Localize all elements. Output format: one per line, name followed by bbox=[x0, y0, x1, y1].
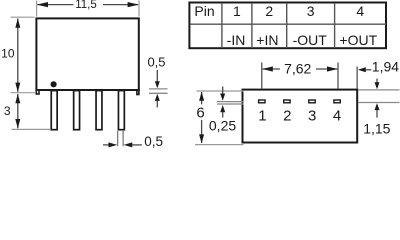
front view: right standoff foot bbox=[137, 90, 139, 95]
dimension 6: bottom extension line bbox=[195, 144, 244, 146]
dimension 1,15: upper arrow shaft bbox=[376, 79, 378, 84]
dimension 1,94: arrow shaft bbox=[365, 69, 371, 71]
dimension 10: dimension line bbox=[17, 19, 19, 92]
svg-text:6: 6 bbox=[196, 105, 204, 122]
front view: pin 2 lead bbox=[74, 91, 80, 130]
dimension 6: dimension line upper segment bbox=[201, 92, 203, 104]
dimension 11,5: right arrowhead bbox=[128, 2, 139, 7]
dimension 3: bottom extension line bbox=[12, 128, 51, 130]
svg-text:4: 4 bbox=[333, 108, 341, 125]
pin table: column line 2 bbox=[251, 3, 253, 48]
dimension 1,15: upper arrowhead pointing down bbox=[375, 82, 380, 89]
dimension 0,5 pin width: left arrowhead pointing right bbox=[109, 142, 118, 147]
dimension 0,5 standoff: lower arrow shaft bbox=[156, 100, 158, 107]
dimension 0,5 standoff: upper reference line bbox=[149, 88, 168, 90]
dimension 3: dimension line bbox=[17, 94, 19, 128]
svg-text:0,5: 0,5 bbox=[147, 54, 165, 69]
dimension 11,5: dimension line left segment bbox=[38, 4, 74, 6]
front view: pin 4 lead bbox=[118, 91, 124, 130]
dimension 10: bottom extension line bbox=[11, 92, 36, 94]
front view: pin 1 lead bbox=[51, 91, 57, 130]
dimension 10: bottom arrowhead bbox=[15, 83, 20, 93]
pin table: column line 1 bbox=[221, 3, 223, 48]
dimension 7,62: right extension line bbox=[337, 63, 339, 89]
dimension 7,62: dimension line right segment bbox=[316, 68, 337, 70]
svg-text:0,25: 0,25 bbox=[209, 118, 236, 134]
dimension 11,5: left extension tick bbox=[36, 1, 38, 17]
dimension 6: dimension line lower segment bbox=[201, 120, 203, 143]
front view: pin 3 lead bbox=[96, 91, 102, 130]
dimension 3: bottom arrowhead bbox=[15, 119, 20, 129]
dimension 0,5 pin width: right arrowhead pointing left bbox=[124, 142, 133, 147]
dimension 0,25: lower pin thickness line bbox=[217, 103, 244, 105]
dimension 11,5: dimension line right segment bbox=[103, 4, 138, 6]
svg-text:3: 3 bbox=[307, 3, 315, 19]
pin table: row separator line bbox=[190, 23, 386, 25]
svg-text:+IN: +IN bbox=[256, 32, 278, 48]
bottom view: pin pad 3 bbox=[309, 100, 315, 103]
dimension 0,5 standoff: lower reference line bbox=[149, 92, 168, 94]
dimension 11,5: left arrowhead bbox=[37, 2, 48, 7]
svg-text:1: 1 bbox=[258, 108, 266, 125]
dimension 6: top arrowhead pointing up bbox=[199, 92, 204, 101]
svg-text:-OUT: -OUT bbox=[293, 32, 328, 48]
bottom view: package body outline bbox=[243, 90, 358, 143]
svg-text:-IN: -IN bbox=[227, 32, 246, 48]
svg-text:+OUT: +OUT bbox=[339, 32, 377, 48]
dimension 3: top arrowhead bbox=[15, 94, 20, 104]
pin table: outer border bbox=[189, 3, 386, 49]
front view: left standoff foot bbox=[36, 90, 39, 94]
svg-text:2: 2 bbox=[265, 3, 273, 19]
dimension 0,25: upper pin thickness line bbox=[217, 101, 244, 103]
dimension 6: bottom arrowhead pointing down bbox=[199, 134, 204, 143]
dimension 7,62: right arrowhead bbox=[327, 66, 338, 71]
dimension 0,25: lower arrowhead pointing up bbox=[220, 105, 225, 112]
dimension 1,15: lower extension line bbox=[359, 102, 400, 104]
dimension 10: top extension line bbox=[11, 16, 35, 18]
dimension 0,5 pin width: left extension line bbox=[117, 131, 119, 146]
dimension 7,62: left arrowhead bbox=[262, 66, 273, 71]
dimension 7,62: left extension line bbox=[261, 63, 263, 89]
dimension 0,5 standoff: upper arrow shaft bbox=[156, 70, 158, 82]
bottom view: pin pad 1 bbox=[259, 100, 265, 103]
dimension 1,94: extension line above box corner bbox=[356, 67, 358, 89]
svg-text:7,62: 7,62 bbox=[284, 60, 311, 76]
svg-text:1,94: 1,94 bbox=[372, 59, 399, 75]
front view: package body outline bbox=[36, 18, 138, 90]
bottom view: pin pad 2 bbox=[284, 100, 290, 103]
svg-text:Pin: Pin bbox=[194, 3, 214, 19]
svg-text:1: 1 bbox=[233, 3, 241, 19]
dimension 1,15: upper extension line bbox=[359, 89, 400, 91]
dimension 0,5 standoff: lower arrowhead pointing up bbox=[155, 94, 160, 101]
dimension 1,94: arrowhead pointing left bbox=[358, 67, 366, 72]
dimension 0,5 pin width: left arrow shaft bbox=[103, 144, 109, 146]
svg-text:11,5: 11,5 bbox=[75, 0, 97, 11]
pin table: column line 3 bbox=[286, 3, 288, 48]
dimension 1,15: lower arrowhead pointing up bbox=[375, 103, 380, 110]
svg-text:10: 10 bbox=[1, 46, 15, 60]
front view: pin 1 marker dot bbox=[51, 81, 57, 87]
dimension 0,25: lower arrow shaft bbox=[222, 112, 224, 118]
dimension 0,5 pin width: right extension line bbox=[122, 131, 124, 146]
dimension 0,5 pin width: right arrow shaft bbox=[132, 144, 142, 146]
dimension 6: top extension line bbox=[197, 90, 244, 92]
svg-text:4: 4 bbox=[356, 3, 364, 19]
pin table: column line 4 bbox=[334, 3, 336, 48]
dimension 10: top arrowhead bbox=[15, 18, 20, 28]
dimension 0,5 standoff: upper arrowhead pointing down bbox=[155, 81, 160, 88]
svg-text:2: 2 bbox=[283, 108, 291, 125]
dimension 0,25: upper arrow shaft bbox=[222, 87, 224, 95]
svg-text:1,15: 1,15 bbox=[363, 121, 390, 137]
dimension 0,25: upper arrowhead pointing down bbox=[220, 94, 225, 101]
bottom view: pin pad 4 bbox=[334, 100, 340, 103]
svg-text:3: 3 bbox=[308, 108, 316, 125]
dimension 11,5: right extension tick bbox=[138, 1, 140, 17]
dimension 7,62: dimension line left segment bbox=[263, 68, 281, 70]
svg-text:0,5: 0,5 bbox=[144, 134, 163, 149]
svg-text:3: 3 bbox=[4, 104, 11, 118]
dimension 1,15: lower arrow shaft bbox=[376, 110, 378, 118]
